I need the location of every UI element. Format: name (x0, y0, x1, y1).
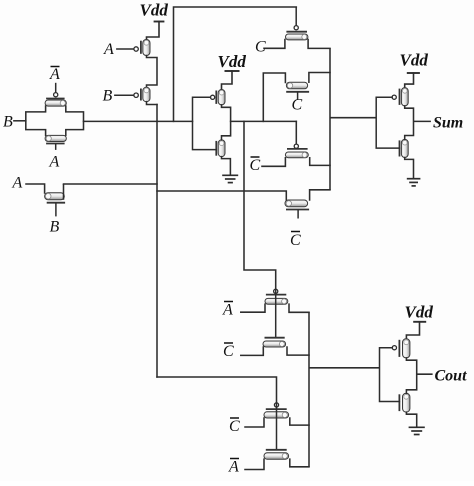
wire: Sum inverter nmos source to ground (405, 158, 414, 178)
label C-bar (TG-B pmos source) (250, 157, 261, 174)
wire: TG-A pmos right terminal to rail (308, 40, 330, 49)
wire: nmos right terminal up to A-row wire (63, 184, 65, 200)
wire: TG1 right ring (66, 106, 84, 135)
svg-text:B: B (3, 114, 13, 131)
wire: sum rail vertical x=330 (329, 48, 331, 189)
svg-text:B: B (50, 219, 60, 236)
wire: A-row wire y=184 ending at V1 (64, 183, 158, 185)
nmos of Cout inverter (399, 393, 410, 412)
nmos pair1 bottom, source C-bar (263, 338, 286, 347)
wire: Cout node to Cout inverter input (309, 367, 380, 369)
wire: TG1 left ring (26, 106, 46, 135)
wire: TG-A nmos right terminal to rail (309, 73, 330, 83)
svg-text:A: A (228, 459, 239, 476)
wire: middle inverter nmos source down to ground (222, 157, 231, 175)
wire: TG-B pmos left terminal to C-bar (262, 158, 285, 167)
wire: TG-B nmos right terminal to rail (310, 190, 330, 200)
pmos pass TG-A top (input C), gate from node X (286, 7, 308, 40)
wire: B input to TG1 (14, 120, 26, 122)
wire: pair2 gates vertical link (276, 403, 278, 450)
svg-text:Cout: Cout (435, 368, 468, 385)
pmos pair2 top, source C-bar, gate X (264, 403, 289, 418)
wire: TG-A pmos left terminal to C (264, 40, 285, 49)
wire: Sum output stub (414, 120, 431, 122)
svg-text:A: A (49, 66, 60, 83)
svg-text:C: C (229, 418, 240, 435)
wire: pair2 nmos left terminal to A-bar (245, 459, 264, 469)
pmos of Cout inverter (392, 339, 410, 358)
wire: Cout output stub (417, 373, 433, 375)
wire: pair1 gates vertical link (275, 289, 277, 338)
svg-text:C: C (255, 39, 266, 56)
svg-text:B: B (103, 88, 113, 105)
pmos A (top chain) (116, 40, 150, 56)
nmos pass TG-A bottom, gate C (286, 82, 309, 100)
wire: Xbar feed down to TG-B PMOS gate bubble (295, 121, 297, 144)
nmos series in A-row, gate B (45, 193, 66, 217)
wire: node X horizontal bus y=121.4 from TG1 output to middle inverter input (84, 120, 193, 122)
wire: middle inverter output node (222, 105, 231, 140)
Vdd supply symbol (Sum inverter) (405, 73, 420, 88)
wire: vertical V2 x=173.5 from top bus to node X (174, 7, 297, 121)
wire: pair1 nmos left terminal to C-bar (241, 347, 263, 355)
wire: between pmos A and pmos B (147, 56, 158, 88)
wire: Cout rail vertical x=309 (308, 312, 310, 467)
pmos pass TG-B top (input C-bar), gate from Xbar (285, 144, 308, 158)
Vdd supply symbol (Cout inverter) (406, 322, 426, 339)
Vdd supply symbol (middle inverter) (222, 71, 240, 90)
wire: Cout inverter output node (406, 358, 416, 393)
wire: vertical E x=244 from Xbar down to pair1 gate feed (244, 121, 276, 288)
label A-bar (pair1 pmos source) (222, 302, 233, 319)
ground (Cout inverter) (409, 427, 425, 434)
wire: middle inverter input bar (193, 97, 217, 149)
wire: Sum inverter input bar (376, 97, 399, 148)
nmos of middle inverter (216, 140, 225, 157)
wire: pair2 pmos left terminal to C-bar (245, 418, 264, 427)
label C-bar (pair1 nmos source) (223, 343, 234, 360)
wire: inverter output Xbar bus y=121.4 (231, 120, 297, 122)
svg-text:C: C (250, 157, 261, 174)
wire: pair1 pmos right terminal to rail (289, 304, 309, 312)
nmos of Sum inverter (400, 139, 409, 157)
wire: Sum inverter output node (405, 106, 414, 139)
wire: Cout inverter input bar (380, 348, 400, 402)
wire: node X branch y=191 to TG-B NMOS left terminal (157, 191, 286, 202)
svg-text:C: C (223, 343, 234, 360)
label C-bar (pair2 pmos source) (229, 418, 240, 435)
wire: sum-bar node to Sum inverter input (330, 117, 376, 119)
svg-text:Vdd: Vdd (140, 1, 169, 20)
svg-text:A: A (12, 175, 23, 192)
label C-bar (TG-B nmos gate) (290, 232, 301, 250)
wire: Xbar up-box to TG-A NMOS left terminal (263, 73, 285, 121)
svg-text:Vdd: Vdd (400, 51, 429, 70)
wire: pair1 nmos right terminal to rail (287, 347, 309, 355)
wire: Cout inverter nmos source to ground (406, 412, 416, 426)
svg-text:Vdd: Vdd (218, 52, 247, 71)
pmos of Sum inverter (392, 88, 408, 106)
svg-text:A: A (103, 41, 114, 58)
svg-text:Vdd: Vdd (405, 303, 434, 322)
wire: vertical V1 node X x=157 from top chain to bottom feed (156, 105, 158, 378)
wire: pair2 pmos right terminal to rail (290, 418, 309, 425)
wire: A input to series nmos (26, 184, 45, 193)
wire: TG-B pmos right terminal to rail (310, 158, 330, 166)
wire: pmos B drain to node X (147, 102, 158, 105)
label A-bar (TG1 top gate) (49, 66, 60, 83)
nmos pair2 bottom, source A-bar (264, 450, 289, 459)
svg-text:A: A (222, 302, 233, 319)
svg-text:Sum: Sum (433, 115, 463, 132)
wire: pair1 pmos left terminal to A-bar (241, 304, 265, 312)
ground (middle inverter) (222, 175, 238, 182)
pmos pair1 top, source A-bar, gate Xbar (265, 289, 288, 304)
nmos pass TG-B bottom, gate C-bar (285, 200, 309, 219)
pmos B (top chain) (114, 87, 150, 101)
svg-text:A: A (49, 154, 60, 171)
wire: pair2 nmos right terminal to rail (290, 459, 309, 467)
wire: bottom feed y=377 to pair2 gates (157, 377, 277, 403)
label A-bar (pair2 nmos source) (228, 459, 239, 476)
ground (Sum inverter) (407, 179, 421, 186)
Vdd supply symbol (top chain) (147, 22, 165, 40)
svg-text:C: C (292, 97, 303, 114)
nmos pass transistor TG1 bottom, gate A (45, 135, 66, 150)
pmos pass transistor TG1 top, gate A-bar (45, 83, 66, 106)
pmos of middle inverter (211, 90, 226, 105)
svg-text:C: C (290, 232, 301, 249)
